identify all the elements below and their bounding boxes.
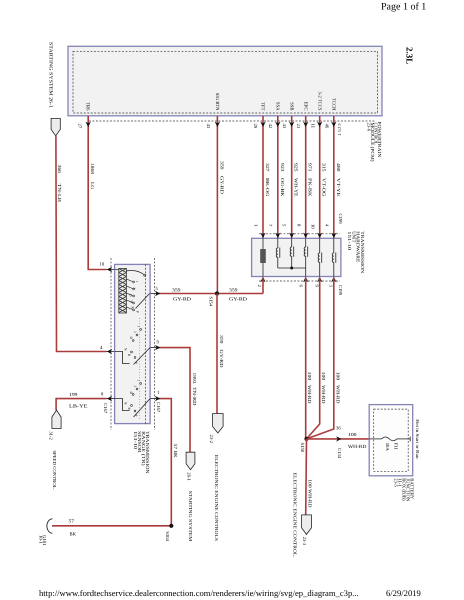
ground G101 symbol: [47, 519, 53, 533]
svg-text:OG-BK: OG-BK: [279, 178, 285, 197]
THU internal common bus pins 7-5-8 to pin 6: [278, 267, 306, 269]
svg-text:57: 57: [69, 518, 75, 524]
svg-text:199: 199: [69, 392, 78, 398]
wire 100 WH-RD from THU pin 3: [307, 278, 334, 439]
svg-text:1868: 1868: [89, 163, 95, 175]
arrow out of TR pin 1: [155, 396, 160, 401]
TR internal switch arm 3: [115, 399, 150, 417]
svg-text:SIG RTN: SIG RTN: [214, 93, 220, 111]
wire 359 GY-RD down from S154: [216, 294, 218, 414]
svg-text:100: 100: [306, 479, 312, 488]
svg-text:BK-OG: BK-OG: [264, 178, 270, 197]
THU internal solenoid coil pin 5: [290, 238, 294, 268]
svg-text:7: 7: [267, 224, 273, 227]
svg-text:23-5: 23-5: [392, 478, 398, 487]
svg-text:TCCH: TCCH: [331, 98, 337, 111]
svg-text:5: 5: [281, 224, 287, 227]
arrow out of TR pin 9: [155, 345, 160, 350]
svg-text:42: 42: [267, 124, 273, 129]
svg-text:TFT: TFT: [260, 102, 266, 110]
arrows into THU bottom: [260, 277, 336, 282]
wire 366 TN-LB vertical: [56, 136, 107, 352]
svg-text:315: 315: [321, 163, 327, 172]
svg-text:327: 327: [264, 163, 270, 172]
svg-text:31-2: 31-2: [48, 431, 54, 440]
svg-text:TN-LB: TN-LB: [56, 184, 62, 203]
svg-text:WH-RD: WH-RD: [334, 385, 340, 404]
svg-text:41: 41: [205, 124, 211, 129]
svg-text:EPC: EPC: [302, 102, 308, 111]
wire 100 WH-RD S150 down to EEC: [305, 439, 308, 515]
svg-text:8: 8: [101, 392, 104, 398]
svg-text:GY-RD: GY-RD: [218, 176, 224, 195]
svg-text:151-10: 151-10: [346, 231, 352, 251]
svg-text:STARTING SYSTEM 26-1: STARTING SYSTEM 26-1: [48, 42, 54, 109]
svg-text:GY-RD: GY-RD: [229, 297, 248, 303]
svg-text:STARTING SYSTEM: STARTING SYSTEM: [188, 491, 193, 542]
wire 57 BK from TR pin 1 to ground: [150, 398, 156, 400]
svg-text:TR6: TR6: [85, 102, 91, 111]
svg-text:23: 23: [295, 124, 301, 129]
connector C199 dashed line top: [259, 233, 340, 235]
svg-text:23-6: 23-6: [366, 123, 372, 132]
splice S154: [215, 291, 219, 295]
connector C199 dashed line bottom: [259, 280, 340, 282]
svg-text:9: 9: [157, 340, 160, 346]
BJB label BATTERY JUNCTION BOX (BJB) 11-1 23-5: [392, 478, 414, 502]
THU internal solenoid coil pin 8: [304, 238, 308, 276]
svg-text:359: 359: [218, 335, 224, 344]
wire 315 VT-OG PCM pin 11 to THU pin 10: [319, 116, 321, 238]
svg-text:C199: C199: [337, 285, 343, 296]
TR internal wiper diagonal group 1: [136, 294, 150, 309]
svg-text:2: 2: [133, 331, 137, 333]
svg-text:100: 100: [334, 372, 340, 381]
svg-text:BK: BK: [70, 532, 77, 538]
splice S104: [169, 524, 173, 528]
svg-text:57: 57: [172, 444, 178, 450]
TR internal contact group 2 positions: [124, 326, 141, 365]
svg-text:1: 1: [253, 224, 259, 227]
THU label TRANSMISSION HARDWARE UNIT 151-10: [346, 231, 365, 274]
svg-text:23-2: 23-2: [208, 435, 214, 444]
svg-text:359: 359: [172, 288, 181, 294]
svg-text:480: 480: [335, 163, 341, 172]
wire 100 WH-RD from THU pin 9: [307, 278, 320, 439]
svg-text:3-2 TCCS: 3-2 TCCS: [317, 91, 323, 110]
svg-text:151-10: 151-10: [132, 431, 138, 450]
svg-text:26-1: 26-1: [185, 472, 191, 481]
svg-text:Hot in Start or Run: Hot in Start or Run: [415, 419, 420, 459]
arrows into THU top: [260, 233, 336, 238]
wire 100 WH-RD from THU pin 6: [305, 278, 307, 439]
starting system 26-1 output arrow (points down): [186, 452, 195, 470]
svg-text:43: 43: [281, 124, 287, 129]
svg-text:C167: C167: [102, 403, 108, 414]
battery junction box: [369, 405, 413, 476]
svg-text:BK: BK: [172, 451, 178, 458]
svg-text:LG: LG: [89, 182, 95, 190]
svg-text:VT-OG: VT-OG: [321, 178, 327, 197]
svg-text:971: 971: [307, 163, 313, 172]
THU bus junction dot: [290, 267, 293, 270]
svg-text:WH-RD: WH-RD: [306, 385, 312, 404]
svg-text:1: 1: [157, 390, 160, 396]
transmission hardware unit box: [252, 238, 341, 276]
svg-text:2.3L: 2.3L: [404, 47, 414, 64]
electronic engine control 23-3 arrow (points down): [302, 515, 312, 535]
wire 359 GY-RD horizontal run TR pin5 to THU pin2: [150, 293, 156, 295]
svg-text:P: P: [136, 311, 140, 313]
svg-text:10: 10: [309, 224, 315, 229]
svg-text:ELECTRONIC ENGINE CONTROL.: ELECTRONIC ENGINE CONTROL.: [293, 473, 298, 558]
arrow out of TR pin 10: [107, 267, 112, 272]
svg-text:C167: C167: [155, 402, 161, 413]
svg-text:PK-BK: PK-BK: [307, 178, 313, 197]
svg-text:4: 4: [100, 345, 103, 351]
TR internal contact group 3 positions: [124, 380, 141, 417]
svg-text:27: 27: [77, 124, 83, 129]
transmission range sensor box: [115, 264, 151, 423]
THU internal solenoid coil pin 4 (to pin 3): [332, 238, 336, 276]
wire 925 WH-YE PCM pin 43 to THU pin 5: [291, 116, 293, 238]
svg-text:C175 T: C175 T: [337, 124, 342, 137]
svg-text:http://www.fordtechservice.dea: http://www.fordtechservice.dealerconnect…: [39, 588, 359, 598]
electronic engine controls 23-2 arrow (points down): [213, 414, 224, 434]
svg-text:923: 923: [279, 163, 285, 172]
splice S150: [304, 437, 308, 441]
svg-text:VT-YE: VT-YE: [335, 178, 341, 197]
wire 199 LB-YE from TR pin 8 to speed control: [56, 399, 106, 411]
THU internal TFT thermistor (pin1-pin2): [262, 238, 264, 276]
svg-text:Page 1 of 1: Page 1 of 1: [381, 2, 426, 13]
C167 dashed line inner: [145, 264, 147, 423]
speed control arrow (points up): [52, 410, 61, 428]
arrow out of TR pin 8: [107, 396, 112, 401]
svg-text:TN-RD: TN-RD: [191, 387, 197, 406]
fuse F11 10A: [369, 437, 410, 442]
THU internal solenoid coil pin 10 (to pin 9): [318, 238, 322, 276]
PCM connector C175 dashed line: [89, 120, 375, 122]
powertrain control module U1 (PCM) box: [68, 46, 382, 116]
svg-text:2: 2: [256, 285, 262, 288]
svg-text:100: 100: [348, 432, 357, 438]
svg-text:11: 11: [310, 124, 316, 129]
svg-text:S104: S104: [164, 531, 170, 541]
svg-text:36: 36: [336, 426, 341, 432]
svg-text:23-3: 23-3: [301, 537, 307, 546]
svg-text:WH-RD: WH-RD: [348, 444, 367, 450]
svg-text:5: 5: [156, 286, 159, 292]
svg-text:S154: S154: [208, 296, 214, 306]
svg-text:6/29/2019: 6/29/2019: [386, 588, 421, 598]
svg-text:925: 925: [293, 163, 299, 172]
TR internal resistive strip: [119, 269, 127, 314]
svg-text:ELECTRONIC ENGINE CONTROLS: ELECTRONIC ENGINE CONTROLS: [214, 455, 219, 542]
wire 923 OG-BK PCM pin 42 to THU pin 7: [277, 116, 279, 238]
svg-text:10-1: 10-1: [37, 535, 43, 544]
wire 1993 TN-RD from TR pin 9: [150, 347, 156, 349]
svg-text:9: 9: [314, 285, 320, 288]
C167 dashed line left: [110, 258, 112, 430]
svg-text:C134: C134: [336, 448, 342, 459]
svg-text:359: 359: [218, 161, 224, 170]
TR sensor label TRANSMISSION RANGE (TR) SENSOR 151-10: [132, 431, 150, 474]
svg-text:100: 100: [306, 372, 312, 381]
svg-text:4: 4: [324, 224, 330, 227]
PCM label POWERTRAIN CONTROL MODULE (PCM) 23-6: [366, 121, 382, 162]
THU internal solenoid coil pin 7: [276, 238, 280, 268]
svg-text:WH-RD: WH-RD: [320, 385, 326, 404]
TR internal tap letters group 1: [129, 281, 140, 313]
svg-text:SSB: SSB: [288, 102, 294, 110]
svg-text:10: 10: [100, 262, 105, 268]
wire 971 PK-BK PCM pin 23 to THU pin 8: [305, 116, 307, 238]
svg-text:SSA: SSA: [274, 102, 280, 111]
TR internal contact taps group 1: [126, 279, 134, 311]
svg-text:3: 3: [328, 285, 334, 288]
svg-text:46: 46: [324, 124, 330, 129]
wire 100 WH-RD S150 to BJB: [307, 438, 370, 440]
svg-text:1: 1: [137, 380, 141, 382]
arrow out of TR pin 5: [155, 291, 160, 296]
wire 1868 LG from PCM pin 27: [88, 116, 106, 270]
wire 327 BK-OG PCM pin 29 to THU pin 1: [262, 116, 264, 238]
arrow out of PCM pin 41: [215, 122, 220, 127]
TR internal wiper line pin 10: [115, 270, 146, 277]
wire 359 GY-RD from PCM pin 41 (SIG RTN): [216, 116, 218, 294]
svg-text:S150: S150: [299, 443, 305, 453]
svg-text:1: 1: [135, 281, 139, 283]
svg-text:359: 359: [229, 288, 238, 294]
svg-text:1: 1: [137, 326, 141, 328]
svg-text:2: 2: [133, 386, 137, 388]
svg-text:2: 2: [132, 288, 136, 290]
svg-text:29: 29: [252, 124, 258, 129]
svg-text:6: 6: [298, 285, 304, 288]
arrow out of PCM pin 27: [86, 122, 91, 127]
starting system feed arrow (pentagon, points down): [51, 118, 60, 135]
svg-text:1993: 1993: [191, 373, 197, 385]
C167 dashed line right outer: [154, 258, 156, 430]
svg-text:8: 8: [295, 224, 301, 227]
svg-text:WH-YE: WH-YE: [293, 178, 299, 197]
wire THU pin 2 drop to 359 run: [262, 278, 264, 294]
svg-text:C199: C199: [337, 214, 343, 225]
svg-text:366: 366: [56, 165, 62, 174]
svg-text:LB-YE: LB-YE: [69, 404, 88, 410]
svg-text:10A: 10A: [384, 443, 390, 452]
arrow through C134: [336, 436, 341, 441]
svg-text:F11: F11: [392, 443, 398, 451]
svg-text:WH-RD: WH-RD: [306, 489, 312, 508]
wire 480 VT-YE PCM pin 46 to THU pin 4: [333, 116, 335, 238]
svg-text:SPEED CONTROL.: SPEED CONTROL.: [52, 450, 57, 490]
TR internal dotted detent line: [139, 318, 141, 420]
svg-text:100: 100: [320, 372, 326, 381]
G101 label: [37, 535, 47, 546]
TR internal switch arm 2: [115, 348, 150, 365]
svg-text:GY-RD: GY-RD: [218, 350, 224, 369]
arrow out of TR pin 4: [107, 349, 112, 354]
svg-text:GY-RD: GY-RD: [173, 297, 192, 303]
